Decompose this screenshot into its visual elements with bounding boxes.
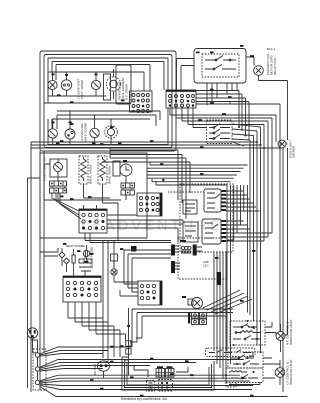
row B lower labels: [56, 143, 122, 145]
door lock relay K2: [202, 219, 221, 244]
svg-text:Rendered by LeadVenture, Inc.: Rendered by LeadVenture, Inc.: [121, 397, 168, 401]
K1 pin strip: [222, 190, 227, 211]
row B switch LR: [65, 111, 75, 145]
wire labels on long runs: [60, 89, 256, 397]
connector block P5: [63, 276, 101, 302]
row B switch LF: [48, 119, 57, 145]
relay down wires: [207, 83, 237, 106]
cluster wiring: [40, 233, 171, 390]
transformer connector 1: [171, 245, 179, 256]
small dashed box bottom: [226, 381, 236, 387]
row B label LF: [51, 122, 54, 124]
svg-text:OUTLET: OUTLET: [93, 364, 97, 375]
bake relay box (dashed): [230, 321, 265, 345]
relay outer loop: [194, 49, 246, 84]
long wire RED: [196, 101, 280, 104]
board text: [203, 260, 209, 268]
bus wire labels: [198, 113, 226, 121]
P6 feed wires: [114, 250, 171, 296]
L2 fan wires: [40, 375, 288, 396]
fan motor: [246, 57, 288, 81]
small box between units: [104, 74, 111, 100]
control board (dashed): [178, 238, 227, 279]
terminal strip TS1: [50, 181, 67, 186]
svg-text:INDICATOR LIGHT: INDICATOR LIGHT: [289, 319, 293, 345]
connector block P1: [130, 91, 153, 113]
svg-text:HEAT PROBE: HEAT PROBE: [66, 244, 85, 248]
svg-text:OVEN LIGHT SW: OVEN LIGHT SW: [43, 157, 47, 181]
lock indicator light: [275, 360, 285, 385]
aux box A1: [183, 200, 197, 214]
clock label: [123, 160, 127, 162]
broil relay box (dashed): [228, 352, 263, 368]
top bus wire 2: [52, 62, 164, 91]
bottom wiring: [134, 365, 188, 377]
svg-text:BROIL 3400W: BROIL 3400W: [89, 165, 93, 184]
oven light label: [289, 140, 296, 158]
broil element: [79, 156, 88, 184]
junction N: [35, 367, 39, 381]
svg-text:INDICATOR LIGHT: INDICATOR LIGHT: [289, 359, 293, 385]
K pin wires: [226, 191, 272, 241]
board connector 3: [171, 261, 180, 273]
board fuse: [217, 272, 222, 285]
dashed module M2: [159, 380, 173, 392]
oven relay contacts: [209, 124, 230, 140]
door lock motor: [111, 254, 118, 282]
surface unit RR: [91, 72, 100, 96]
row B switch RR: [90, 115, 99, 145]
surface unit RF dual: [106, 69, 120, 99]
surface unit LF: [48, 72, 57, 96]
L1 fan wires: [40, 347, 131, 356]
lock motor label: [131, 246, 137, 252]
row B bus 1: [57, 111, 160, 120]
connector block P4: [137, 193, 162, 216]
resistor R1: [72, 249, 75, 270]
bottom grid G1: [156, 366, 165, 377]
mid section inner top: [103, 161, 190, 193]
cord junction block (dashed): [33, 349, 46, 390]
transformer label: [180, 240, 186, 242]
bottom grid G2: [166, 366, 175, 377]
oven relay box (dashed): [207, 120, 233, 144]
convect relay box (dashed): [202, 54, 239, 77]
svg-text:R.F. 2400W: R.F. 2400W: [125, 84, 129, 100]
dashed module M1: [147, 381, 155, 392]
connector block P3: [79, 209, 107, 233]
terminal strip TS2: [50, 188, 67, 193]
latch switch box: [206, 348, 256, 357]
terminal strip TS3: [121, 183, 135, 188]
row A upper bus: [56, 65, 150, 92]
connector block P6: [138, 281, 162, 305]
N fan wires: [40, 360, 244, 372]
bake light labels: [286, 319, 293, 345]
row B label LR: [69, 122, 72, 124]
svg-text:SW 8" 2100W: SW 8" 2100W: [84, 123, 88, 142]
row B lower bus: [48, 108, 168, 145]
lock light labels: [286, 359, 293, 385]
junction arrows: [110, 346, 194, 376]
aux box A2: [183, 222, 198, 242]
buzzer: [83, 245, 89, 263]
bottom box inner: [125, 360, 212, 388]
transformer coil: [181, 246, 191, 253]
row B switch RF: [105, 119, 118, 145]
bake relay internals: [233, 324, 260, 340]
oven fan motor: [188, 298, 203, 309]
relay left wires: [177, 59, 195, 91]
surface unit LR: [61, 72, 71, 96]
svg-text:BAKE 2585W: BAKE 2585W: [108, 165, 112, 184]
mid section box: [40, 153, 147, 238]
P2 right bus: [196, 91, 249, 141]
latch enclosure (dashed): [180, 184, 233, 252]
convenience outlet: [98, 361, 110, 378]
mid wiring labels: [60, 196, 92, 201]
lock relay box (dashed): [226, 368, 263, 383]
left border bus wires: [28, 141, 284, 392]
svg-text:RELAY COIL: RELAY COIL: [273, 57, 277, 75]
power plug: [27, 328, 37, 338]
RR wire label: [95, 74, 98, 76]
mid section wiring: [44, 164, 132, 203]
bake element: [98, 156, 107, 184]
probe jack diodes: [59, 248, 70, 272]
oven light switch box: [50, 159, 67, 177]
LR wire label: [65, 74, 68, 76]
terminal strip TS4: [121, 190, 135, 195]
relay wire labels: [196, 45, 244, 53]
svg-text:SW 40W: SW 40W: [292, 146, 296, 158]
S-bend wires: [110, 148, 186, 220]
bottom box inner 2: [127, 363, 209, 385]
connector block P2: [166, 90, 196, 108]
cluster tie wires: [229, 322, 280, 385]
junction L1: [35, 353, 39, 367]
svg-text:BLK-1: BLK-1: [267, 47, 276, 51]
board diag wires: [203, 290, 252, 314]
K2 pin strip: [222, 220, 227, 242]
left bus verticals: [40, 151, 44, 256]
cluster junction dots: [225, 320, 262, 386]
bus wires from P2: [170, 108, 276, 128]
fan text col: [266, 47, 277, 75]
row A upper bus 2: [48, 72, 144, 96]
LF wire label: [52, 74, 55, 76]
bake indicator light: [276, 324, 285, 352]
broil relay internals: [231, 355, 259, 365]
lower bus labels: [57, 94, 125, 103]
latch switch marks: [209, 350, 251, 353]
cluster labels: [63, 243, 94, 255]
transformer connector 2: [193, 245, 202, 256]
top bus wire 1: [48, 58, 168, 103]
power cord: [31, 338, 38, 353]
junction L2: [35, 380, 39, 384]
oven light: [278, 140, 288, 148]
nested corner wires: [127, 309, 233, 347]
row B bus 3: [52, 119, 150, 129]
top section inner wire loop: [44, 55, 172, 148]
svg-text:12C: 12C: [203, 264, 209, 268]
right vertical bus: [227, 81, 288, 393]
P3 feed wires: [52, 193, 183, 242]
lock relay internals: [229, 371, 258, 379]
fan label: [182, 296, 186, 298]
K drop wires: [214, 240, 234, 384]
clock box: [113, 161, 120, 176]
connector pairs CP: [188, 313, 207, 325]
row A lower bus: [44, 96, 130, 103]
oven relay output wires: [232, 124, 261, 146]
clock timer: [120, 164, 132, 176]
row B text col: [80, 122, 88, 142]
nested corner wires mid-right: [147, 162, 248, 192]
center verticals: [103, 203, 118, 362]
row B bus 2: [57, 115, 156, 129]
relay contacts: [205, 56, 236, 70]
bottom box outer: [122, 357, 214, 390]
cluster small parts: [79, 255, 93, 271]
fan label: [250, 55, 254, 57]
fuse line: [126, 308, 131, 375]
door latch relay K1: [204, 189, 221, 212]
top section outer box: [40, 51, 176, 151]
infinite switch box: [116, 65, 131, 104]
